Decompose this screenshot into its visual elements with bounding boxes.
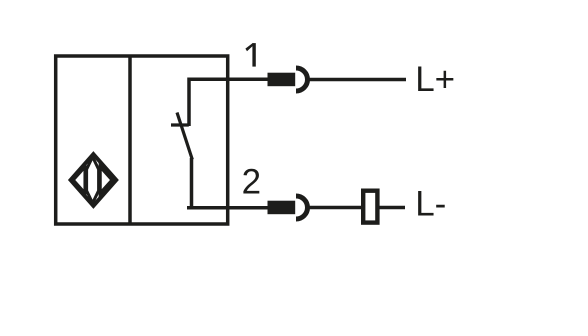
- svg-text:L+: L+: [415, 60, 455, 99]
- pin 2 connector plug: [268, 201, 296, 215]
- load element: [363, 191, 377, 223]
- wire switch to pin 2: [187, 206, 268, 210]
- svg-text:2: 2: [242, 163, 261, 202]
- inductive sensor symbol diamond: [71, 154, 117, 206]
- pin 1 label: [245, 43, 255, 67]
- wire load to L-: [379, 206, 405, 210]
- inductive sensor symbol center band: [87, 157, 99, 203]
- pin 1 connector plug: [268, 73, 296, 87]
- sensor body divider: [128, 56, 132, 224]
- inductive sensor symbol right triangle: [100, 167, 112, 193]
- switch blade: [177, 113, 192, 160]
- pin 2 connector socket arc: [296, 196, 308, 219]
- inductive sensor symbol left triangle: [73, 167, 85, 193]
- wire pin 2 to load: [307, 206, 362, 210]
- switch fixed contact tick: [171, 123, 189, 126]
- sensor body outline: [56, 56, 228, 224]
- wire pin 1 to L+: [307, 78, 406, 82]
- pin 1 connector socket arc: [296, 68, 308, 91]
- switch lower terminal: [190, 158, 194, 208]
- switch upper terminal and wire to pin 1: [189, 79, 268, 126]
- svg-text:L-: L-: [415, 184, 446, 223]
